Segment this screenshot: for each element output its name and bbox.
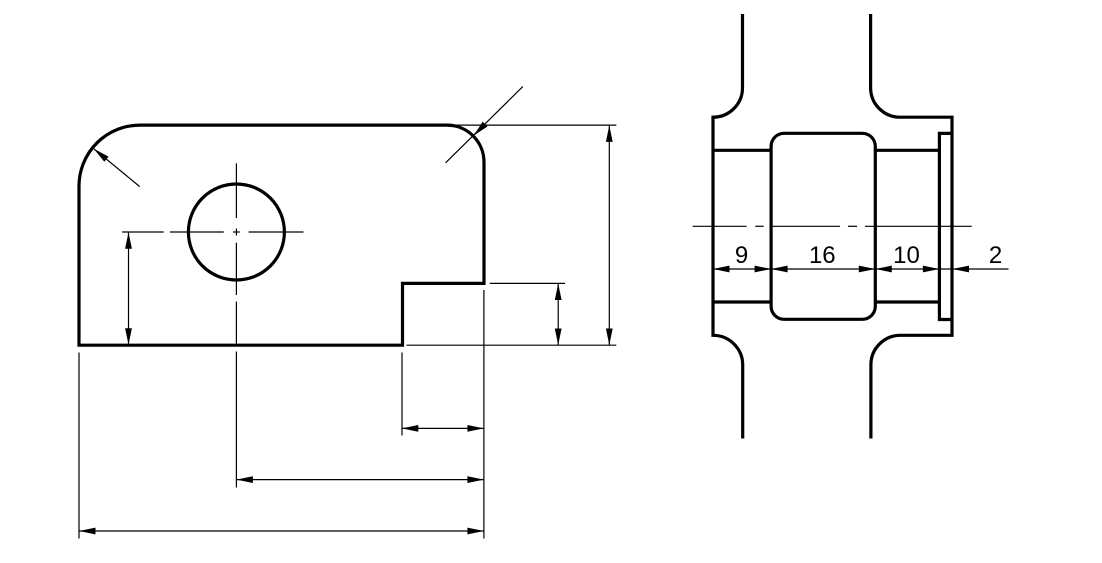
svg-text:10: 10 xyxy=(893,242,920,269)
svg-text:2: 2 xyxy=(989,242,1002,269)
svg-text:16: 16 xyxy=(809,242,836,269)
svg-text:9: 9 xyxy=(735,242,748,269)
